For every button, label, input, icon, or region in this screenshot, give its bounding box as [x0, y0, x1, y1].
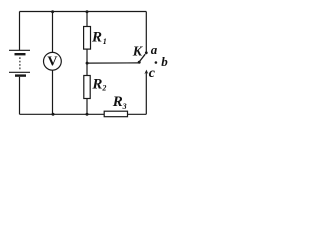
- voltmeter U1 circle: [44, 52, 62, 70]
- wire voltmeter branch bottom: [52, 70, 54, 114]
- node junction bottom R2: [86, 113, 89, 116]
- node junction middle R1-R2: [86, 62, 89, 65]
- contact c arrow head: [144, 70, 148, 75]
- wire left side upper (battery top lead): [19, 12, 21, 51]
- node junction top R1: [86, 10, 89, 13]
- node junction bottom voltmeter: [52, 113, 55, 116]
- wire node to R2: [86, 63, 88, 75]
- wire R1 to node: [86, 49, 88, 63]
- node junction top voltmeter: [51, 10, 54, 13]
- wire right side upper (to contact a): [145, 12, 147, 53]
- svg-text:2: 2: [101, 84, 106, 93]
- svg-text:R: R: [112, 94, 123, 110]
- resistor R3 body: [104, 111, 127, 117]
- svg-text:V: V: [47, 55, 57, 70]
- svg-text:K: K: [132, 45, 144, 60]
- contact a dot: [145, 51, 148, 54]
- battery dashed link (more cells): [19, 57, 21, 69]
- resistor R1 body: [84, 27, 91, 50]
- svg-text:c: c: [149, 66, 156, 81]
- battery cell 1 short thick plate (-): [15, 53, 26, 55]
- svg-text:b: b: [161, 54, 168, 69]
- svg-text:R: R: [91, 30, 102, 46]
- svg-text:R: R: [91, 76, 102, 92]
- svg-text:1: 1: [103, 37, 107, 46]
- wire voltmeter branch top: [52, 12, 54, 53]
- switch K blade: [140, 54, 146, 61]
- wire R2 bottom: [86, 99, 88, 115]
- battery cell 2 long plate (+): [9, 71, 30, 73]
- contact b dot: [155, 61, 158, 64]
- wire bottom rail right of R3: [128, 113, 147, 115]
- wire left side lower (battery bottom lead): [19, 77, 21, 115]
- svg-text:a: a: [151, 42, 158, 57]
- svg-text:3: 3: [122, 102, 127, 111]
- switch pivot dot: [138, 61, 141, 64]
- battery cell 2 short thick plate (-): [15, 74, 26, 76]
- wire right side lower (contact c lead): [145, 73, 147, 115]
- wire middle to switch pivot: [87, 62, 139, 64]
- resistor R2 body: [84, 76, 90, 99]
- wire bottom rail left of R3: [20, 113, 105, 115]
- wire R1 branch top: [86, 12, 88, 27]
- wire top rail: [20, 11, 147, 13]
- battery cell 1 long plate (+): [9, 49, 30, 51]
